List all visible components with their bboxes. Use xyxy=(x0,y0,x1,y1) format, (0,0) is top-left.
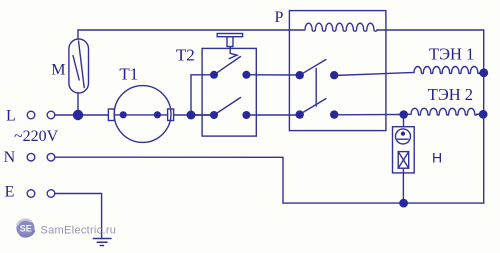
wire: main line T1 to T2 lower contact xyxy=(174,114,213,116)
T2 button stem xyxy=(227,37,233,47)
T2 upper switch lever xyxy=(214,57,241,75)
terminal L circles xyxy=(27,111,35,119)
node bottom junction xyxy=(399,199,408,208)
wire: lamp branch lower xyxy=(402,168,404,203)
wire: branch riser to T2 upper contact xyxy=(191,75,214,115)
wire: relay lower contact to TEN2 junction xyxy=(334,114,404,116)
T2 lower switch lever xyxy=(214,98,241,116)
svg-text:L: L xyxy=(6,108,16,125)
wire: M top riser xyxy=(77,30,79,39)
lamp H electrode dot xyxy=(401,132,405,136)
watermark logo SE xyxy=(16,219,34,237)
relay P upper contact lever xyxy=(300,60,326,76)
svg-text:ТЭН 1: ТЭН 1 xyxy=(429,44,474,63)
thermostat T1 circle xyxy=(114,86,171,143)
wire: bottom return line xyxy=(283,202,484,204)
svg-text:SamElectric.ru: SamElectric.ru xyxy=(41,225,117,237)
wire: top line M to relay coil xyxy=(78,29,304,31)
wire: inside T1 xyxy=(114,114,167,116)
lamp H ballast resistor box xyxy=(398,152,409,169)
relay P contact dots xyxy=(296,71,304,79)
junction node at M xyxy=(73,110,83,120)
T2 contact dots xyxy=(210,71,218,79)
wire: T2 lower entry xyxy=(191,114,214,116)
lamp H electrode bar xyxy=(398,138,409,140)
relay P mechanical link xyxy=(315,69,317,107)
svg-text:Т1: Т1 xyxy=(119,65,138,84)
T1 left terminal xyxy=(108,109,114,121)
lamp H bulb circle xyxy=(396,129,411,144)
relay P box xyxy=(289,11,386,131)
T2 button actuator arrow xyxy=(229,47,237,59)
svg-text:ТЭН 2: ТЭН 2 xyxy=(428,85,473,104)
indicator lamp H outer box xyxy=(393,127,415,173)
svg-text:E: E xyxy=(5,184,15,201)
svg-text:Т2: Т2 xyxy=(176,46,195,65)
relay P lower contact lever xyxy=(300,99,326,115)
ground symbol xyxy=(93,239,111,246)
node TEN1 right xyxy=(479,68,488,77)
svg-text:М: М xyxy=(51,61,65,78)
wire: T2 upper right to relay P upper left xyxy=(246,74,300,76)
terminal E circles xyxy=(27,190,35,198)
wire: N line xyxy=(55,157,283,203)
wire: T2 lower right contact to relay P lower left contact xyxy=(246,114,300,116)
wire: right bus vertical xyxy=(483,30,485,203)
svg-text:N: N xyxy=(4,149,16,166)
wire: relay upper contact to TEN1 xyxy=(334,73,411,76)
svg-text:Н: Н xyxy=(432,149,442,165)
svg-text:Р: Р xyxy=(275,9,284,26)
component M inner diagonal lines xyxy=(73,56,79,81)
wire: coil output to right bus xyxy=(377,29,484,31)
lamp H ballast diagonals xyxy=(398,152,409,169)
switch block T2 box xyxy=(202,48,256,136)
T1 internal contact dots xyxy=(120,111,127,118)
heating element TEN2 (resistor) xyxy=(404,108,484,115)
relay coil P xyxy=(305,23,377,31)
wire: lamp branch upper xyxy=(403,115,405,127)
svg-text:SE: SE xyxy=(20,223,32,233)
component M body (thermal cutout oval) xyxy=(69,39,89,93)
svg-text:~220V: ~220V xyxy=(14,128,59,145)
node TEN2 right xyxy=(479,110,488,119)
terminal N circles xyxy=(27,153,35,161)
node TEN2 left junction xyxy=(399,110,408,119)
junction node T2 branch xyxy=(187,111,196,120)
heating element TEN1 (resistor) xyxy=(411,67,484,74)
wire: L feed from terminal to T1 xyxy=(55,114,109,116)
T1 right terminal xyxy=(168,109,174,121)
wire: E earth line xyxy=(55,194,102,239)
wire: riser from junction to M bottom xyxy=(77,93,79,115)
T2 button cap xyxy=(217,34,242,37)
